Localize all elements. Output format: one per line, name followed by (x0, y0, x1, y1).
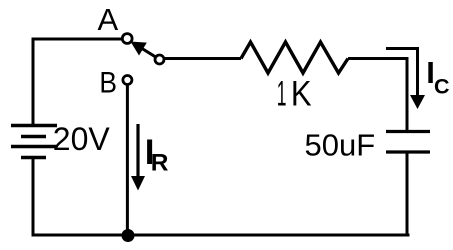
wire left rail vertical (bottom) (32, 158, 35, 237)
svg-text:R: R (151, 150, 169, 177)
wire resistor to right rail (348, 57, 409, 60)
wire switch pole to resistor (164, 57, 242, 60)
svg-text:K: K (291, 75, 312, 114)
capacitor C1 50uF (386, 132, 430, 153)
svg-text:1: 1 (277, 74, 287, 113)
svg-text:A: A (98, 2, 119, 37)
battery BT1 20V (11, 126, 57, 158)
svg-text:50uF: 50uF (305, 128, 376, 163)
wire right rail vertical (bottom) (406, 152, 409, 237)
svg-text:20V: 20V (53, 121, 111, 157)
wire branch B vertical (126, 85, 129, 236)
wire bottom rail (32, 234, 410, 237)
current arrow IR (131, 124, 145, 191)
current arrow IC (386, 49, 425, 110)
junction dot (122, 229, 135, 242)
svg-text:C: C (434, 75, 450, 99)
switch S1 contact A terminal (122, 34, 132, 44)
svg-text:B: B (99, 65, 117, 99)
switch S1 arm with arrowhead toward A (131, 42, 158, 58)
wire top-left from left rail to switch contact A (33, 38, 122, 41)
wire right rail vertical (top) (406, 57, 409, 132)
resistor R1 1K (241, 42, 348, 73)
wire left rail vertical (top) (32, 38, 35, 128)
node B terminal circle (123, 76, 132, 85)
switch S1 pole terminal (155, 55, 164, 64)
